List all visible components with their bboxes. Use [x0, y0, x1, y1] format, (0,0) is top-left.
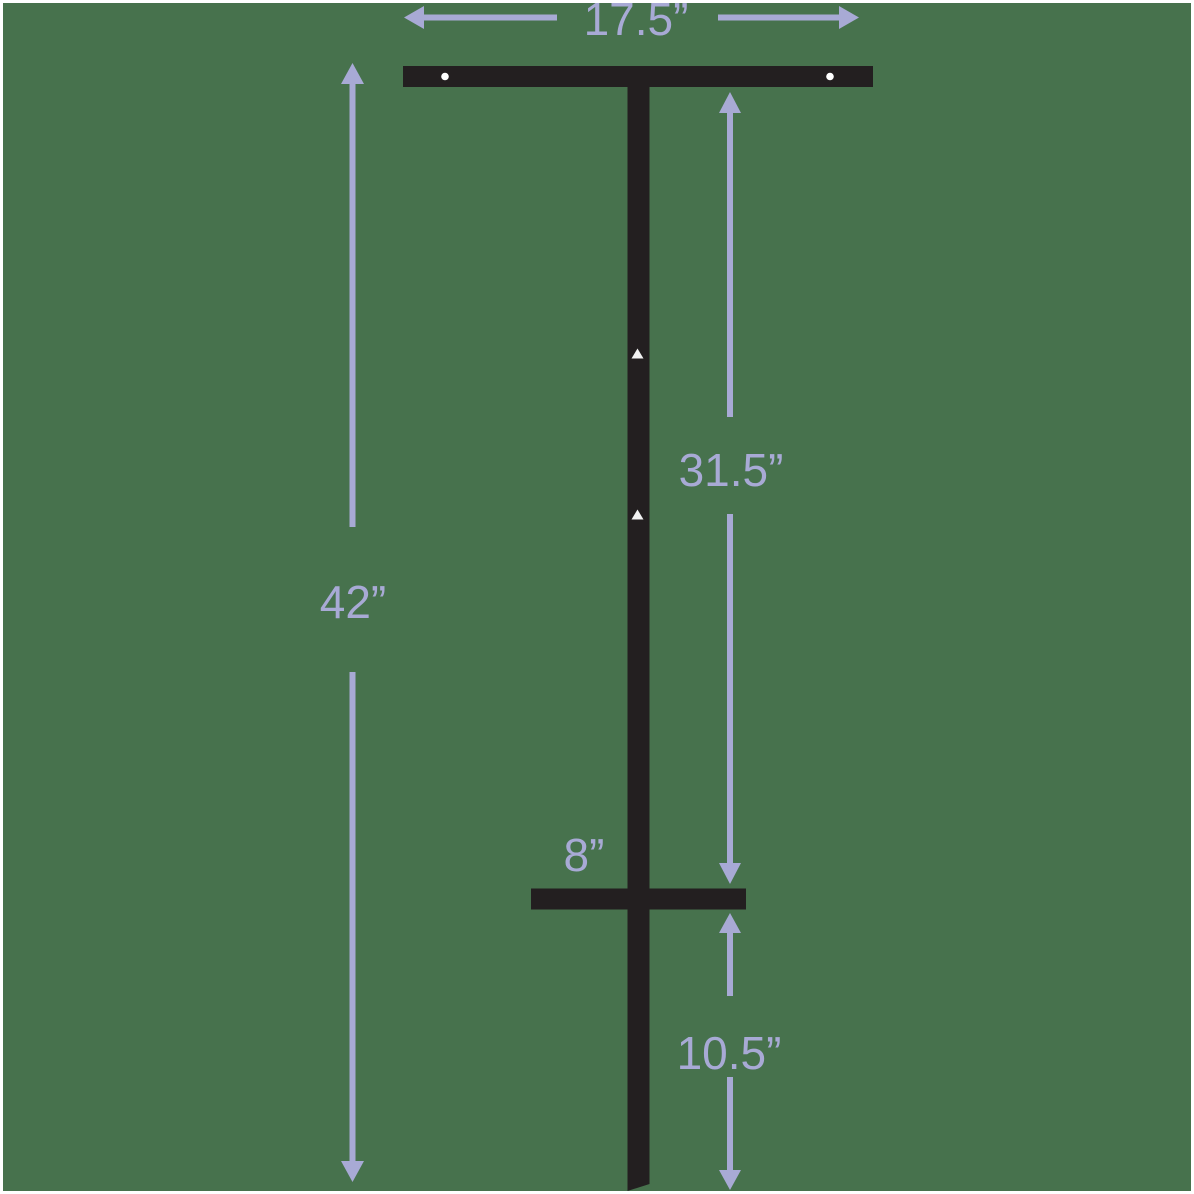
post tab lower (white triangle) [632, 510, 644, 520]
dimension 17.5in right arrow shaft [718, 15, 839, 21]
dimension 10.5in upper arrowhead [719, 913, 741, 933]
dimension 31.5in lower shaft [727, 514, 733, 864]
dimension 17.5in right arrowhead [839, 6, 859, 29]
dimension 17.5in left arrow shaft [424, 15, 557, 21]
dimension 42in lower shaft [350, 672, 356, 1161]
dimension 10.5in lower shaft [727, 1077, 733, 1171]
dimension 17.5in left arrowhead [404, 6, 424, 29]
dimension 10.5in upper shaft [727, 933, 733, 996]
svg-text:10.5”: 10.5” [677, 1027, 782, 1079]
dimension 31.5in lower arrowhead [719, 863, 741, 884]
bolt hole right on top crossbar [826, 73, 834, 81]
vertical post [628, 87, 650, 1191]
dimension 42in upper arrowhead [341, 63, 364, 84]
svg-text:42”: 42” [320, 576, 386, 628]
dimension 31.5in upper arrowhead [719, 92, 741, 113]
bolt hole left on top crossbar [441, 73, 449, 81]
svg-text:8”: 8” [564, 829, 605, 881]
dimension 42in upper shaft [350, 84, 356, 527]
dimension 10.5in lower arrowhead [719, 1170, 741, 1190]
dimension 42in lower arrowhead [341, 1161, 364, 1182]
sign post top crossbar (17.5in bracket) [403, 66, 873, 87]
post tab upper (white triangle) [632, 349, 644, 359]
svg-text:17.5”: 17.5” [584, 0, 689, 45]
dimension 31.5in upper shaft [727, 113, 733, 417]
ground stabilizer crossbar (8in) [531, 889, 746, 910]
svg-text:31.5”: 31.5” [679, 444, 784, 496]
